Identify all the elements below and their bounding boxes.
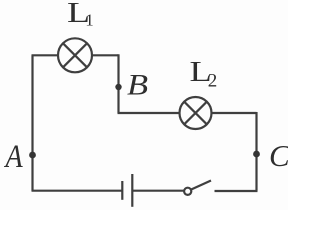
battery cell: short plate xyxy=(121,181,123,200)
svg-text:2: 2 xyxy=(208,71,218,92)
switch lever (open) xyxy=(191,181,211,190)
wire: L2 right to top-right corner xyxy=(212,112,257,114)
node A xyxy=(29,152,36,159)
battery cell: long plate xyxy=(131,174,133,207)
svg-text:A: A xyxy=(4,138,23,175)
lamp L2 xyxy=(180,97,212,129)
wire: right vertical (C branch) xyxy=(255,112,257,191)
wire: left vertical (A branch) xyxy=(31,55,33,190)
node C xyxy=(253,151,260,158)
wire: top-left horizontal to L1 xyxy=(32,54,59,56)
wire: battery to switch xyxy=(132,190,184,192)
svg-text:C: C xyxy=(269,138,288,173)
wire: L1 right to corner xyxy=(92,54,119,56)
wire: vertical through node B xyxy=(117,54,119,113)
label L2 xyxy=(190,57,218,92)
wire: horizontal B to L2 xyxy=(118,112,180,114)
lamp L1 xyxy=(58,38,92,72)
label L1 xyxy=(67,0,94,30)
node B xyxy=(115,84,121,90)
svg-text:1: 1 xyxy=(85,11,94,30)
wire: switch right to corner xyxy=(215,190,258,192)
switch pivot circle xyxy=(184,188,191,195)
wire: bottom left to battery xyxy=(32,190,123,192)
svg-text:B: B xyxy=(127,68,148,101)
